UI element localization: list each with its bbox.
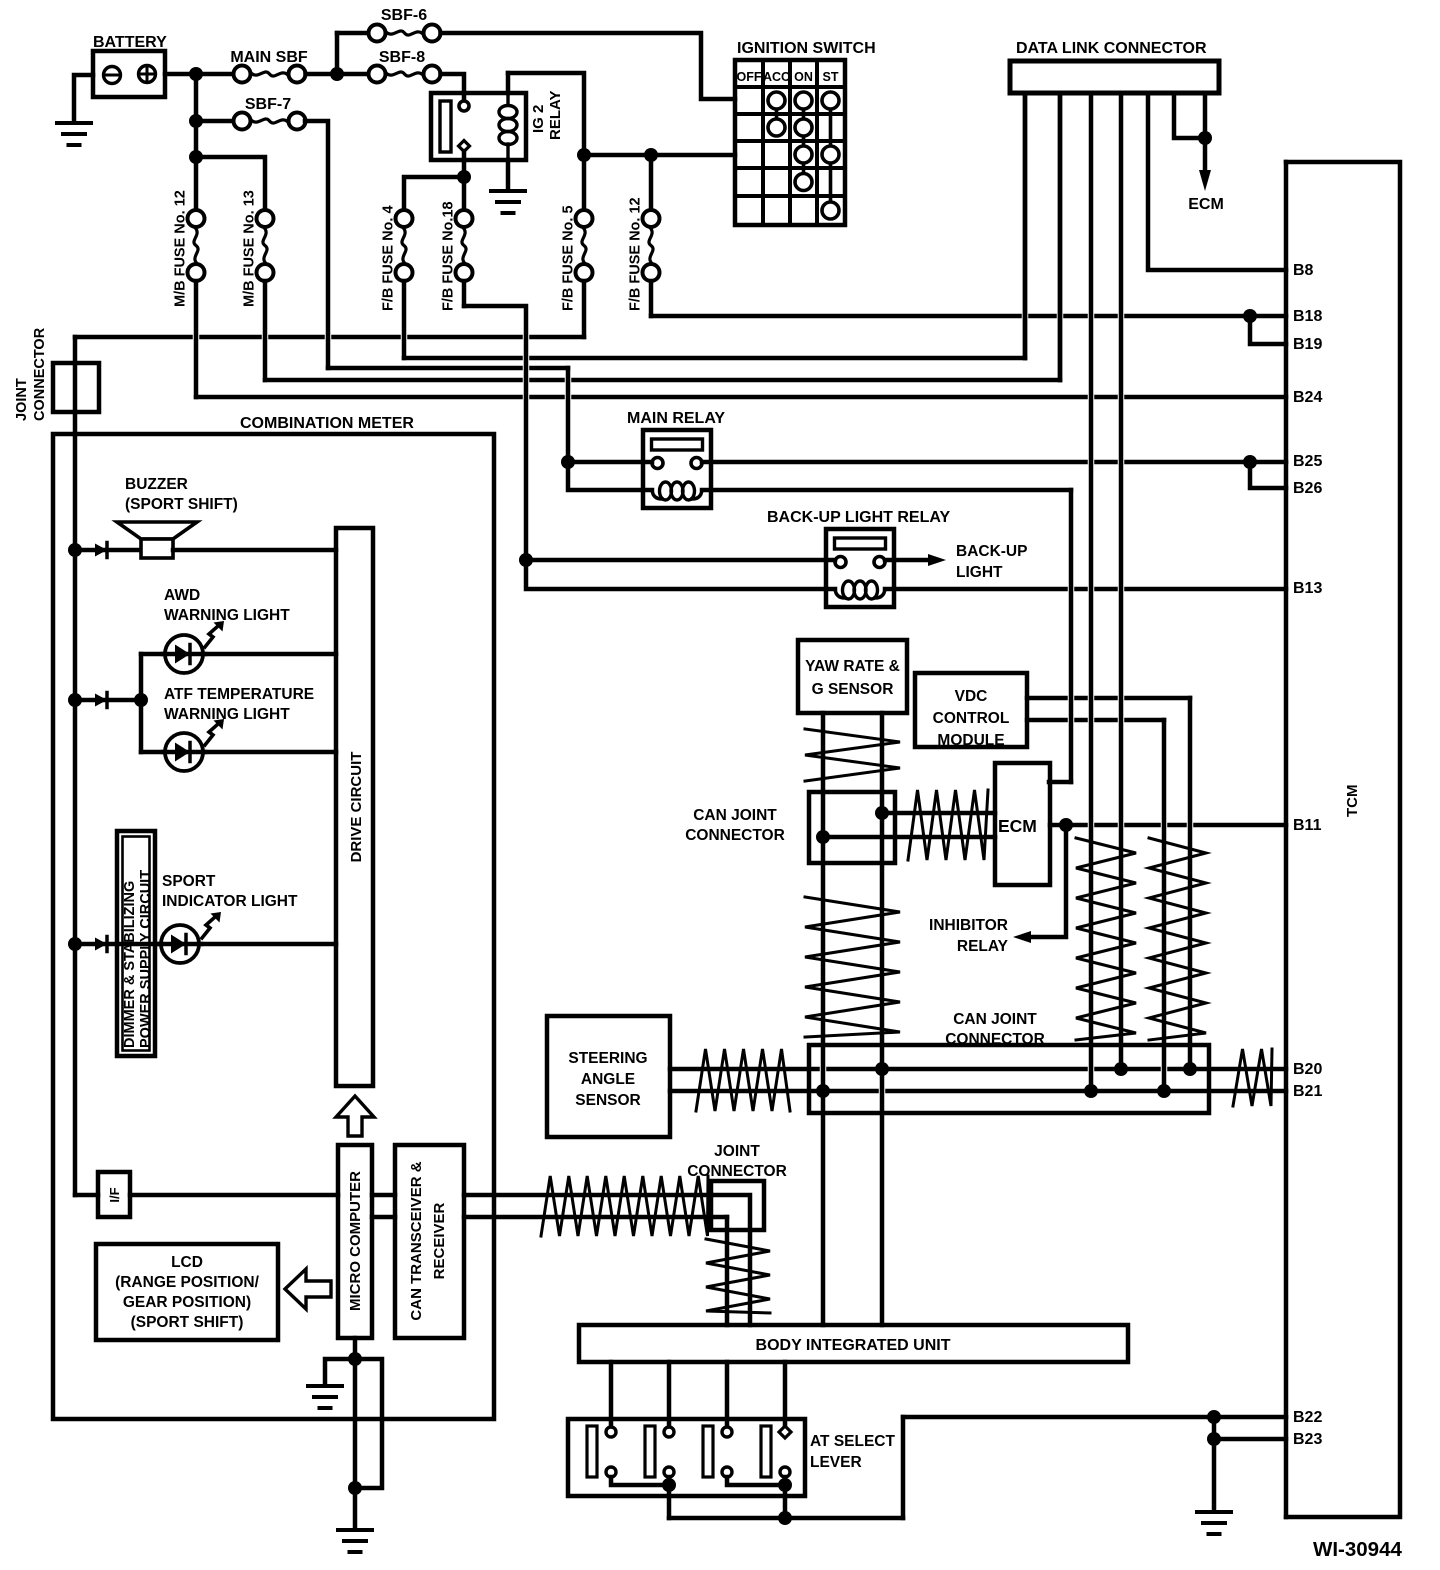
combination meter box [53,434,494,1419]
wire SBF-6 to ignition switch [441,33,736,99]
back-up light relay [826,529,894,607]
svg-text:INDICATOR LIGHT: INDICATOR LIGHT [162,893,298,910]
svg-text:INHIBITOR: INHIBITOR [929,917,1008,934]
wire battery negative to ground [74,75,93,120]
node micro ground 2 [348,1481,362,1495]
svg-text:WARNING LIGHT: WARNING LIGHT [164,607,290,624]
twisted pair CAN joint to ECM [908,790,988,860]
svg-text:ACC: ACC [763,70,790,84]
wire to back-up relay coil [526,560,835,589]
wire IG2 relay coil to ground [506,160,511,188]
CAN transceiver and receiver [395,1145,464,1338]
ground battery [57,121,91,125]
twisted pair yaw to CAN joint 2 [805,897,900,1037]
TCM box [1286,162,1400,1517]
twisted pair yaw sensor [805,729,900,781]
LED sport indicator light [161,942,336,947]
svg-text:(SPORT SHIFT): (SPORT SHIFT) [131,1314,244,1331]
node ATF branch [68,693,82,707]
node back-up relay feed [519,553,533,567]
svg-text:COMBINATION METER: COMBINATION METER [240,415,414,432]
svg-text:AT SELECT: AT SELECT [810,1433,895,1450]
svg-text:B25: B25 [1293,453,1322,470]
svg-text:G SENSOR: G SENSOR [812,681,894,698]
wire B26 jog [1250,462,1286,488]
svg-text:B24: B24 [1293,389,1322,406]
node F/B No.12 top [644,148,658,162]
dimmer and stabilizing power supply circuit [117,831,155,1056]
LCD display [96,1244,278,1340]
svg-text:MODULE: MODULE [937,732,1004,749]
svg-text:SBF-7: SBF-7 [245,96,291,113]
node SBF junction [330,67,344,81]
CAN bus B21 [670,1089,1286,1094]
svg-text:GEAR POSITION): GEAR POSITION) [123,1294,251,1311]
node battery junction [189,67,203,81]
buzzer (sport shift) [117,522,197,539]
node bus B20 yaw [875,1062,889,1076]
node B25 junction [1243,455,1257,469]
svg-text:OFF: OFF [737,70,762,84]
wire main relay coil to ECM [702,488,1071,493]
joint connector CAN [711,1181,764,1230]
svg-text:WARNING LIGHT: WARNING LIGHT [164,706,290,723]
svg-text:LIGHT: LIGHT [956,564,1003,581]
svg-text:DIMMER & STABILIZING: DIMMER & STABILIZING [122,881,138,1048]
twisted pair CAN A [1076,838,1136,1040]
steering angle sensor [547,1016,670,1137]
arrow drive circuit [336,1096,374,1136]
svg-text:CONNECTOR: CONNECTOR [32,327,48,421]
svg-text:IGNITION SWITCH: IGNITION SWITCH [737,40,876,57]
wire to SBF-7 [196,119,233,124]
micro computer [338,1145,372,1338]
wire M/B fuse No.13 to data link connector (row 4) [263,281,268,380]
svg-text:B19: B19 [1293,336,1322,353]
fuse F/B FUSE No. 5 [582,227,586,265]
node F/B fuse branch [457,170,471,184]
node bus B20 VDC [1183,1062,1197,1076]
diode warning lights [75,698,141,703]
wire ground loop [355,1359,382,1488]
CAN joint connector 1 [809,792,895,863]
svg-text:CAN JOINT: CAN JOINT [693,807,777,824]
svg-text:ST: ST [823,70,839,84]
arrow to ECM [1199,170,1211,191]
svg-text:WI-30944: WI-30944 [1313,1538,1402,1561]
wires micro computer to CAN transceiver [372,1193,395,1198]
wire battery positive to MAIN SBF [165,72,233,77]
svg-text:IG 2: IG 2 [530,105,547,133]
ECM box [995,763,1050,885]
svg-text:POWER SUPPLY CIRCUIT: POWER SUPPLY CIRCUIT [138,870,154,1048]
svg-text:BATTERY: BATTERY [93,34,167,51]
arrow to back-up light [885,558,928,563]
svg-text:CONNECTOR: CONNECTOR [687,1163,787,1180]
wire I/F to micro computer [130,1193,338,1198]
wire M/B fuse No.12 to TCM B24 (row 5) [194,281,199,397]
svg-text:AWD: AWD [164,587,200,604]
AT select lever [568,1419,805,1496]
node micro ground 1 [348,1352,362,1366]
svg-text:CAN TRANSCEIVER &: CAN TRANSCEIVER & [408,1161,425,1320]
svg-text:MICRO COMPUTER: MICRO COMPUTER [347,1171,364,1311]
wire DLC drop 5 to TCM B8 [1148,93,1286,270]
node bus B21 yaw [816,1084,830,1098]
wire branch to M/B fuse No. 13 [196,157,265,212]
wire joint connector down 2 [725,1217,730,1325]
wire battery to SBF-7 branch [194,74,199,212]
diode buzzer [75,548,141,553]
svg-text:SPORT: SPORT [162,873,216,890]
wire F/B fuse No.4 to data link connector (row 2) [402,281,407,358]
wire to back-up relay contact [526,558,835,563]
fuse MAIN SBF [250,72,289,76]
svg-text:SENSOR: SENSOR [575,1092,640,1109]
I/F box [98,1172,130,1217]
wire to main relay coil [568,462,652,490]
svg-text:SBF-6: SBF-6 [381,7,427,24]
twisted pair steering sensor [696,1049,790,1111]
wire VDC CAN H [1027,696,1190,701]
wire F/B fuse No.12 to TCM B18/B19 [649,281,654,316]
wire SBF-7 to main relay (row 3) [305,121,328,368]
node bus B20 DLC [1114,1062,1128,1076]
svg-text:CAN JOINT: CAN JOINT [953,1011,1037,1028]
wire to chassis ground [1212,1439,1217,1509]
node B22 [1207,1410,1221,1424]
svg-text:VDC: VDC [955,688,988,705]
wire VDC CAN L [1027,718,1164,723]
svg-text:B8: B8 [1293,262,1314,279]
CAN joint connector 2 [809,1045,1209,1113]
wire meter supply bus [73,434,78,1195]
svg-text:ATF TEMPERATURE: ATF TEMPERATURE [164,686,314,703]
ground micro computer internal [325,1359,355,1383]
ground IG2 relay [491,189,525,193]
svg-text:RELAY: RELAY [957,938,1009,955]
svg-text:TCM: TCM [1344,785,1361,818]
wire IG2 relay contact to F/B fuses 4 and 18 [462,151,467,212]
svg-text:DATA LINK CONNECTOR: DATA LINK CONNECTOR [1016,40,1207,57]
twisted pair CAN transceiver [541,1176,708,1236]
svg-text:ECM: ECM [1188,196,1224,213]
ground micro computer external [353,1488,358,1527]
CAN bus B20 [670,1067,1286,1072]
svg-text:B18: B18 [1293,308,1322,325]
svg-text:M/B FUSE No. 12: M/B FUSE No. 12 [173,190,189,307]
svg-text:STEERING: STEERING [568,1050,647,1067]
fuse M/B FUSE No. 12 [194,227,198,265]
drive circuit [336,528,373,1086]
svg-text:YAW RATE &: YAW RATE & [805,658,900,675]
node CAN joint upper [875,806,889,820]
svg-text:B11: B11 [1293,817,1322,834]
svg-text:(RANGE POSITION/: (RANGE POSITION/ [115,1274,260,1291]
wire SBF-8 to IG2 relay contact [441,74,465,100]
node SBF-7 junction [189,114,203,128]
wire DLC drop 3 CAN to joint connector bus [1089,93,1094,1091]
svg-text:B22: B22 [1293,1409,1322,1426]
wires CAN joint to ECM [882,811,995,816]
node F/B No.5 top [577,148,591,162]
svg-text:CONNECTOR: CONNECTOR [945,1031,1045,1048]
diode sport indicator [75,942,161,947]
wire F/B fuse No.18 to back-up light relay [462,281,467,306]
node bus B21 VDC [1157,1084,1171,1098]
svg-text:F/B FUSE No.18: F/B FUSE No.18 [441,201,457,311]
joint connector [73,337,78,434]
fuse SBF-6 [385,31,424,35]
wire to main relay contact [568,460,652,465]
svg-text:B13: B13 [1293,580,1322,597]
svg-text:BUZZER: BUZZER [125,476,188,493]
node B18 junction [1243,309,1257,323]
LED ATF temperature warning light [141,750,336,755]
wire DLC drop 4 CAN to joint connector bus [1119,93,1124,1069]
node B23 [1207,1432,1221,1446]
wire up to SBF-6 [335,33,340,74]
node CAN joint lower [816,830,830,844]
wire DLC drop 1 to row 2 [1023,93,1028,358]
wire joint connector down 1 [711,1195,750,1325]
wire back-up relay coil to TCM B13 [885,587,1286,592]
svg-text:RECEIVER: RECEIVER [431,1202,448,1279]
svg-text:B20: B20 [1293,1061,1322,1078]
svg-text:F/B FUSE No. 12: F/B FUSE No. 12 [628,197,644,311]
node main relay feed [561,455,575,469]
twisted pair bus to TCM [1233,1049,1272,1106]
wire yaw sensor CAN H [821,713,826,1325]
wire IG2 relay coil to F/B fuse No.5 [506,73,511,93]
wires CAN transceiver to joint connector [464,1193,711,1198]
svg-text:B26: B26 [1293,480,1322,497]
fuse SBF-7 [250,119,289,123]
svg-text:LEVER: LEVER [810,1454,862,1471]
fuse M/B FUSE No. 13 [263,227,267,265]
svg-text:ANGLE: ANGLE [581,1071,635,1088]
ground AT select [1197,1510,1231,1514]
svg-text:CONNECTOR: CONNECTOR [685,827,785,844]
svg-text:F/B FUSE No. 5: F/B FUSE No. 5 [561,205,577,311]
yaw rate and G sensor [798,640,907,713]
wire F/B fuse No.5 to joint connector (row 1) [582,281,587,337]
LED AWD warning light [141,652,336,657]
fuse F/B FUSE No.18 [462,227,466,265]
svg-text:BODY INTEGRATED UNIT: BODY INTEGRATED UNIT [756,1337,951,1354]
svg-text:F/B FUSE No. 4: F/B FUSE No. 4 [381,205,397,311]
svg-text:M/B FUSE No. 13: M/B FUSE No. 13 [242,190,258,307]
svg-text:I/F: I/F [107,1187,122,1202]
node M/B fuse branch [189,150,203,164]
battery [93,51,165,97]
node warning light split [134,693,148,707]
wires body unit to AT select lever [609,1362,614,1427]
VDC control module [915,673,1027,747]
svg-text:B21: B21 [1293,1083,1322,1100]
twisted pair joint connector to body integrated unit [706,1239,770,1313]
fuse F/B FUSE No. 12 [649,227,653,265]
data link connector [1010,61,1219,93]
svg-text:JOINT: JOINT [14,378,30,421]
wire micro computer ground [353,1338,358,1488]
wire buzzer to drive circuit [173,548,336,553]
wire junction to SBF-6 [337,31,369,36]
node ECM branch [1198,131,1212,145]
svg-text:SBF-8: SBF-8 [379,49,425,66]
svg-text:DRIVE CIRCUIT: DRIVE CIRCUIT [348,752,365,863]
relay IG2 [431,93,526,160]
wire ECM to TCM B11 [1050,823,1286,828]
svg-text:MAIN RELAY: MAIN RELAY [627,410,725,427]
svg-text:MAIN SBF: MAIN SBF [230,49,308,66]
svg-text:ECM: ECM [998,816,1037,836]
svg-text:BACK-UP: BACK-UP [956,543,1027,560]
node inhibitor branch [1059,818,1073,832]
wire IG2 to ignition switch row ON/ST [584,153,735,158]
wire DLC drop 6 to ECM [1174,93,1205,138]
node sport indicator branch [68,937,82,951]
svg-text:JOINT: JOINT [714,1143,760,1160]
wire AT select lever to TCM B22/B23 [901,1417,906,1518]
svg-text:BACK-UP LIGHT RELAY: BACK-UP LIGHT RELAY [767,509,950,526]
fuse SBF-8 [385,72,424,76]
main relay [643,430,711,508]
wires AT select lever common [611,1477,669,1485]
svg-text:RELAY: RELAY [547,91,564,140]
arrow micro computer to LCD [285,1269,331,1309]
wire DLC drop 2 to row 4 [1058,93,1063,380]
wire B23 [1212,1417,1217,1439]
svg-text:ON: ON [794,70,813,84]
wire B19 jog [1250,316,1286,344]
wire to I/F [75,1193,98,1198]
svg-text:CONTROL: CONTROL [933,710,1010,727]
wire MAIN SBF to SBF-8 [306,72,370,77]
node buzzer branch [68,543,82,557]
fuse F/B FUSE No. 4 [402,227,406,265]
svg-text:LCD: LCD [171,1254,203,1271]
wire main relay contact to TCM B25 [702,460,1286,465]
svg-text:B23: B23 [1293,1431,1322,1448]
node bus B21 DLC [1084,1084,1098,1098]
arrow to inhibitor relay [1031,825,1066,937]
svg-text:(SPORT SHIFT): (SPORT SHIFT) [125,496,238,513]
body integrated unit [579,1325,1128,1362]
ignition switch [735,60,845,225]
twisted pair CAN B [1149,838,1206,1040]
wire yaw sensor CAN L [880,713,885,1325]
